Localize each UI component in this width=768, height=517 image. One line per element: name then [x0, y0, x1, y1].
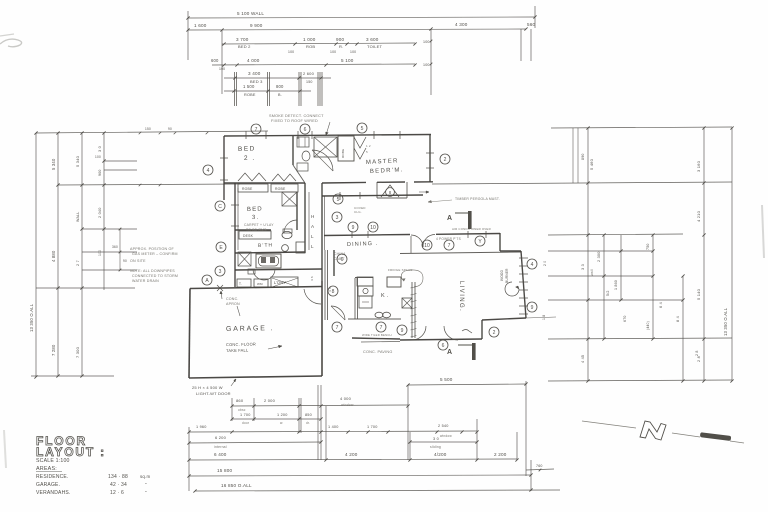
svg-text:TOILET: TOILET: [367, 44, 382, 49]
top block extension lines: [235, 72, 323, 106]
svg-text:GAS METER – CONFIRM: GAS METER – CONFIRM: [132, 252, 178, 256]
svg-text:”: ”: [145, 482, 147, 487]
laundry fixtures: [235, 269, 322, 287]
svg-text:7 280: 7 280: [51, 344, 56, 356]
garage walls: [189, 281, 322, 378]
grid ref Y: [475, 236, 485, 246]
svg-text:SMOKE DETECT. CONNECT: SMOKE DETECT. CONNECT: [269, 114, 324, 118]
grid ref 2: [440, 154, 450, 164]
svg-text:ROB: ROB: [306, 44, 315, 49]
label BED 2: [238, 145, 256, 162]
svg-text:5: 5: [337, 197, 340, 203]
right dim line x588: [581, 126, 594, 382]
svg-text:DESK: DESK: [243, 234, 254, 238]
label LIVING: [458, 281, 464, 312]
svg-text:6 400: 6 400: [214, 452, 227, 457]
svg-text:GARAGE .: GARAGE .: [226, 325, 274, 333]
bed3 note: [244, 223, 274, 232]
svg-text:1 2⁠: 1 2⁠: [366, 144, 371, 148]
svg-text:800: 800: [276, 84, 284, 89]
svg-text:1 700: 1 700: [240, 413, 251, 417]
dimension line 3700 BED2 row: [222, 37, 417, 54]
svg-text:7: 7: [336, 325, 339, 331]
svg-text:90: 90: [168, 127, 172, 131]
svg-text:100: 100: [288, 50, 294, 54]
svg-text:L: L: [311, 244, 314, 249]
dimension line 1700/1200/850: [230, 413, 322, 425]
svg-text:15 800: 15 800: [217, 468, 232, 473]
svg-text:150: 150: [306, 80, 313, 84]
svg-text:42 · 34: 42 · 34: [110, 482, 127, 488]
svg-text:wall: wall: [590, 269, 594, 276]
svg-text:RESIDENCE.: RESIDENCE.: [36, 474, 69, 480]
svg-text:5 140: 5 140: [696, 288, 701, 300]
svg-text:3 0⁠: 3 0⁠: [433, 437, 439, 441]
svg-text:10: 10: [424, 243, 430, 249]
label BED 3: [247, 206, 263, 221]
svg-text:4 6⁠: 4 6⁠: [310, 276, 314, 281]
svg-text:L: L: [311, 234, 314, 239]
svg-text:1 960: 1 960: [196, 425, 207, 429]
svg-text:9 900: 9 900: [250, 23, 263, 28]
svg-text:3 3⁠: 3 3⁠: [581, 264, 585, 270]
svg-text:6: 6: [341, 257, 344, 263]
svg-text:DINING .: DINING .: [347, 241, 379, 248]
svg-text:2 540: 2 540: [438, 424, 449, 428]
svg-text:3: 3: [336, 215, 339, 221]
svg-text:1 700: 1 700: [367, 425, 378, 429]
bottom block extension lines: [189, 385, 517, 491]
svg-text:5: 5: [361, 126, 364, 132]
right dim line x704: [696, 126, 706, 382]
svg-text:6: 6: [442, 343, 445, 349]
left block connector lines: [31, 127, 268, 376]
svg-text:3: 3: [219, 269, 222, 275]
grid ref 7: [444, 240, 454, 250]
ensuite: [354, 182, 429, 214]
svg-text:APPROX. POSITION OF: APPROX. POSITION OF: [130, 247, 175, 251]
grid ref 9: [348, 222, 358, 232]
svg-text:2: 2: [444, 157, 447, 163]
svg-text:5 100: 5 100: [341, 58, 354, 63]
svg-text:9: 9: [352, 225, 355, 231]
svg-text:internal: internal: [214, 445, 227, 449]
svg-text:4/200: 4/200: [434, 452, 447, 457]
svg-text:90: 90: [123, 259, 127, 263]
svg-text:890: 890: [581, 153, 585, 160]
svg-text:ROBE: ROBE: [275, 187, 286, 191]
svg-text:LAYOUT :: LAYOUT :: [36, 445, 106, 459]
svg-text:7 300: 7 300: [75, 346, 80, 358]
svg-text:3 700: 3 700: [236, 37, 249, 42]
dimension line 860/2000/4000: [230, 396, 409, 412]
svg-text:5 340: 5 340: [75, 155, 80, 167]
svg-text:850: 850: [305, 413, 312, 417]
grid ref C: [215, 201, 225, 211]
label BATH: [258, 242, 273, 249]
left dim line x104: [98, 131, 106, 290]
svg-text:6: 6: [304, 127, 307, 133]
svg-text:2 .: 2 .: [244, 155, 256, 162]
svg-text:K .: K .: [381, 293, 389, 299]
svg-text:CONC.: CONC.: [226, 297, 239, 301]
svg-text:1 000: 1 000: [303, 37, 316, 42]
svg-text:WM: WM: [257, 282, 263, 286]
label DINING: [347, 241, 379, 248]
grid ref 6: [300, 124, 310, 134]
garage labels: [226, 297, 282, 353]
svg-text:1 500: 1 500: [243, 84, 255, 89]
svg-text:600: 600: [211, 58, 219, 63]
north arrow: [582, 421, 744, 443]
svg-text:C: C: [218, 204, 222, 210]
svg-text:3 400: 3 400: [248, 71, 261, 76]
label wood burner: [500, 268, 509, 283]
grid ref 7: [376, 322, 386, 332]
svg-text:ON SITE: ON SITE: [130, 259, 146, 263]
svg-text:100: 100: [95, 155, 101, 159]
left dim line x58: [51, 131, 60, 377]
svg-text:CARPET + U’LAY: CARPET + U’LAY: [244, 223, 274, 227]
dining top wall: [322, 192, 423, 200]
label K: [381, 293, 389, 299]
svg-text:7: 7: [380, 325, 383, 331]
svg-text:100: 100: [423, 40, 430, 44]
hall walls: [284, 183, 325, 304]
svg-text:TO BD RMS: TO BD RMS: [246, 228, 267, 232]
left dim line x82: [75, 131, 84, 377]
left wing wall: [224, 183, 305, 287]
svg-text:2 0⁠: 2 0⁠: [543, 261, 547, 266]
svg-text:134 · 88: 134 · 88: [108, 474, 128, 480]
gas meter note: [130, 247, 178, 283]
svg-text:2 8⁠: 2 8⁠: [695, 350, 699, 356]
svg-text:TIMBER PERGOLA MAST.: TIMBER PERGOLA MAST.: [455, 197, 500, 201]
svg-text:NOTE: ALL DOWNPIPES: NOTE: ALL DOWNPIPES: [130, 269, 175, 273]
bed3 furniture: [235, 192, 297, 239]
svg-text:4 45⁠: 4 45⁠: [581, 355, 585, 363]
grid ref 5: [333, 194, 343, 204]
svg-text:670: 670: [623, 315, 627, 322]
svg-text:7: 7: [255, 127, 258, 133]
dimension line 1960/1400/1700/2540: [187, 424, 478, 438]
svg-text:3 0⁠: 3 0⁠: [98, 146, 102, 152]
grid ref 3: [215, 266, 225, 276]
entry porch south: [325, 250, 400, 342]
svg-text:3 160: 3 160: [696, 160, 701, 172]
svg-text:WOOD: WOOD: [500, 269, 504, 281]
master bedroom walls: [322, 135, 434, 184]
svg-text:w.: w.: [280, 421, 283, 425]
title FLOOR LAYOUT scale: [36, 434, 106, 464]
svg-text:12 · 6⁠: 12 · 6⁠: [110, 490, 124, 496]
svg-text:BED 2: BED 2: [238, 44, 251, 49]
svg-text:BURNER: BURNER: [505, 268, 509, 283]
living room walls: [400, 233, 556, 340]
grid ref 6: [337, 254, 347, 264]
svg-text:dr.: dr.: [306, 421, 310, 425]
dimension line 600/4000/5100: [211, 58, 417, 71]
svg-text:ROBE: ROBE: [242, 187, 253, 191]
door swing right wall: [505, 282, 519, 296]
smoke detector note: [269, 114, 324, 123]
svg-text:obsc: obsc: [238, 408, 246, 412]
svg-text:4 210: 4 210: [696, 210, 701, 222]
svg-text:R.: R.: [339, 44, 343, 49]
svg-text:2 040: 2 040: [98, 207, 102, 218]
svg-text:10: 10: [370, 225, 376, 231]
robes row: [238, 173, 298, 192]
dimension line 13350 OALL (right): [723, 126, 734, 382]
svg-text:900: 900: [336, 37, 345, 42]
svg-text:4 000: 4 000: [247, 58, 260, 63]
svg-text:16 850 O.ALL: 16 850 O.ALL: [221, 483, 252, 488]
dimension line 1500 ROBE row: [224, 84, 311, 97]
svg-text:window: window: [440, 434, 452, 438]
dimension line 6200 internal: [187, 435, 478, 449]
svg-text:5 500: 5 500: [440, 377, 453, 382]
svg-text:3.: 3.: [252, 215, 260, 221]
svg-text:2: 2: [493, 330, 496, 336]
dining-living wall: [324, 231, 521, 254]
kitchen fixtures: [331, 268, 423, 338]
grid ref 9: [527, 302, 537, 312]
dimension line 1600/9900/4300 (top): [186, 22, 535, 95]
svg-text:SCALE 1:100: SCALE 1:100: [36, 458, 70, 464]
svg-text:TAKE FALL: TAKE FALL: [226, 348, 249, 353]
grid ref 7: [332, 322, 342, 332]
svg-text:1 600: 1 600: [194, 23, 207, 28]
svg-text:6 4⁠: 6 4⁠: [659, 302, 663, 308]
svg-text:5/2⁠: 5/2⁠: [606, 290, 610, 296]
svg-text:(440): (440): [646, 321, 650, 330]
dimension line 15800: [187, 460, 554, 491]
svg-text:25⁠ H × 4 500 W: 25⁠ H × 4 500 W: [192, 385, 223, 390]
grid ref 7: [251, 124, 261, 134]
svg-text:”: ”: [145, 490, 147, 495]
top exterior wall: [224, 131, 431, 139]
svg-text:5 340: 5 340: [51, 158, 56, 170]
svg-text:8 4⁠: 8 4⁠: [676, 316, 680, 322]
svg-text:100: 100: [330, 50, 336, 54]
grid ref A: [202, 275, 212, 285]
svg-text:4 000: 4 000: [340, 396, 352, 401]
svg-text:A: A: [447, 349, 452, 356]
svg-text:860: 860: [236, 398, 244, 403]
svg-text:CONNECTED TO STORM: CONNECTED TO STORM: [132, 274, 178, 278]
center small notes: [334, 197, 500, 354]
svg-text:100: 100: [350, 50, 356, 54]
svg-text:window: window: [341, 403, 354, 407]
grid ref 10: [422, 240, 432, 250]
svg-text:9: 9: [401, 328, 404, 334]
svg-text:13 350 O.ALL: 13 350 O.ALL: [29, 303, 34, 332]
grid ref 4: [203, 165, 213, 175]
svg-text:ROBE: ROBE: [244, 93, 256, 97]
svg-text:APRON: APRON: [226, 302, 240, 306]
svg-text:9: 9: [531, 305, 534, 311]
bed2 right wall: [293, 136, 305, 183]
svg-text:5 100 WALL: 5 100 WALL: [237, 11, 264, 16]
dimension line 13350 OALL (left): [29, 131, 38, 378]
svg-text:BED: BED: [247, 206, 263, 213]
svg-text:5⁠: 5⁠: [366, 150, 368, 154]
grid ref 10: [368, 222, 378, 232]
svg-text:1 400: 1 400: [328, 425, 339, 429]
svg-text:WIDE TILED BENCH: WIDE TILED BENCH: [362, 333, 392, 337]
right mid dim lines: [542, 128, 699, 383]
svg-text:2 8⁠: 2 8⁠: [697, 356, 701, 362]
svg-text:CONC. FLOOR: CONC. FLOOR: [226, 341, 256, 347]
svg-text:4: 4: [531, 262, 534, 268]
bed2 left wall w/ window: [220, 136, 228, 200]
entry porch: [297, 122, 371, 171]
section marker A lower: [447, 343, 476, 360]
section marker A upper: [447, 211, 472, 229]
svg-text:sliding: sliding: [430, 445, 441, 449]
svg-text:BED: BED: [238, 145, 256, 153]
garage door note: [192, 379, 236, 396]
svg-text:LIVING.: LIVING.: [458, 281, 464, 312]
svg-text:sq.m: sq.m: [140, 474, 150, 479]
label MASTER BEDRM: [366, 158, 404, 175]
svg-text:4: 4: [207, 168, 210, 174]
dimension line 16850 OALL: [193, 483, 560, 493]
dimension line 5100 WALL (top): [186, 6, 536, 60]
svg-text:6 200: 6 200: [215, 435, 227, 440]
svg-text:100: 100: [423, 63, 430, 67]
svg-text:2 300: 2 300: [597, 251, 601, 262]
svg-text:VERANDAHS.: VERANDAHS.: [36, 490, 71, 496]
svg-text:B.: B.: [278, 93, 282, 97]
dimension line 5500 (bottom right): [406, 377, 527, 476]
svg-text:WATER DRAIN: WATER DRAIN: [132, 279, 159, 283]
grid ref 6: [438, 340, 448, 350]
svg-text:5 460: 5 460: [589, 158, 594, 170]
svg-text:1 860: 1 860: [614, 280, 618, 290]
svg-text:WALL: WALL: [76, 212, 80, 222]
svg-text:1 200: 1 200: [277, 413, 288, 417]
svg-text:4 300: 4 300: [455, 22, 468, 27]
svg-text:T.: T.: [239, 282, 242, 286]
svg-text:FIXED TO ROOF WIRED: FIXED TO ROOF WIRED: [271, 119, 318, 123]
label HALL: [311, 214, 315, 249]
svg-text:100: 100: [219, 67, 225, 71]
svg-text:150: 150: [145, 127, 151, 131]
svg-text:360: 360: [112, 245, 118, 249]
dimension line 3400 BED3 row: [224, 71, 331, 84]
svg-text:3 600: 3 600: [366, 37, 379, 42]
svg-text:760: 760: [536, 464, 543, 468]
svg-text:CONC. PAVING: CONC. PAVING: [363, 350, 392, 354]
svg-text:750: 750: [646, 243, 650, 250]
label LDRY: [274, 280, 286, 285]
grid ref 9: [397, 325, 407, 335]
areas table: [36, 466, 150, 496]
svg-text:100: 100: [98, 250, 102, 256]
svg-text:L’DRY: L’DRY: [274, 280, 286, 285]
svg-text:2 7⁠: 2 7⁠: [76, 260, 80, 266]
svg-text:A: A: [447, 215, 452, 222]
grid ref 2: [489, 327, 499, 337]
svg-text:4 200: 4 200: [345, 452, 358, 457]
svg-text:8: 8: [332, 289, 335, 295]
svg-text:2 000: 2 000: [264, 398, 276, 403]
svg-text:900: 900: [98, 169, 102, 176]
svg-text:door: door: [242, 421, 250, 425]
grid ref 4: [527, 259, 537, 269]
svg-text:H: H: [311, 214, 315, 219]
svg-text:2 600: 2 600: [303, 71, 315, 76]
grid ref 3: [332, 212, 342, 222]
svg-text:560: 560: [527, 22, 536, 27]
svg-text:13 350 O.ALL: 13 350 O.ALL: [723, 307, 728, 336]
svg-text:GARAGE.: GARAGE.: [36, 482, 60, 488]
svg-text:7: 7: [448, 243, 451, 249]
svg-text:AREAS:: AREAS:: [36, 466, 57, 472]
svg-text:LIGHT-WT DOOR: LIGHT-WT DOOR: [196, 391, 231, 396]
svg-text:B’TH: B’TH: [258, 242, 273, 249]
grid ref E: [216, 242, 226, 252]
bath fixtures: [235, 229, 305, 268]
svg-text:2 200: 2 200: [494, 452, 507, 457]
svg-text:CLG.: CLG.: [354, 210, 362, 214]
svg-text:ROBE: ROBE: [341, 149, 345, 158]
svg-text:4 880: 4 880: [51, 250, 56, 262]
grid ref 5: [357, 123, 367, 133]
dimension line 6400/4200/4200/2200: [187, 452, 518, 462]
right block connector lines: [432, 127, 732, 381]
grid ref 8: [328, 286, 338, 296]
